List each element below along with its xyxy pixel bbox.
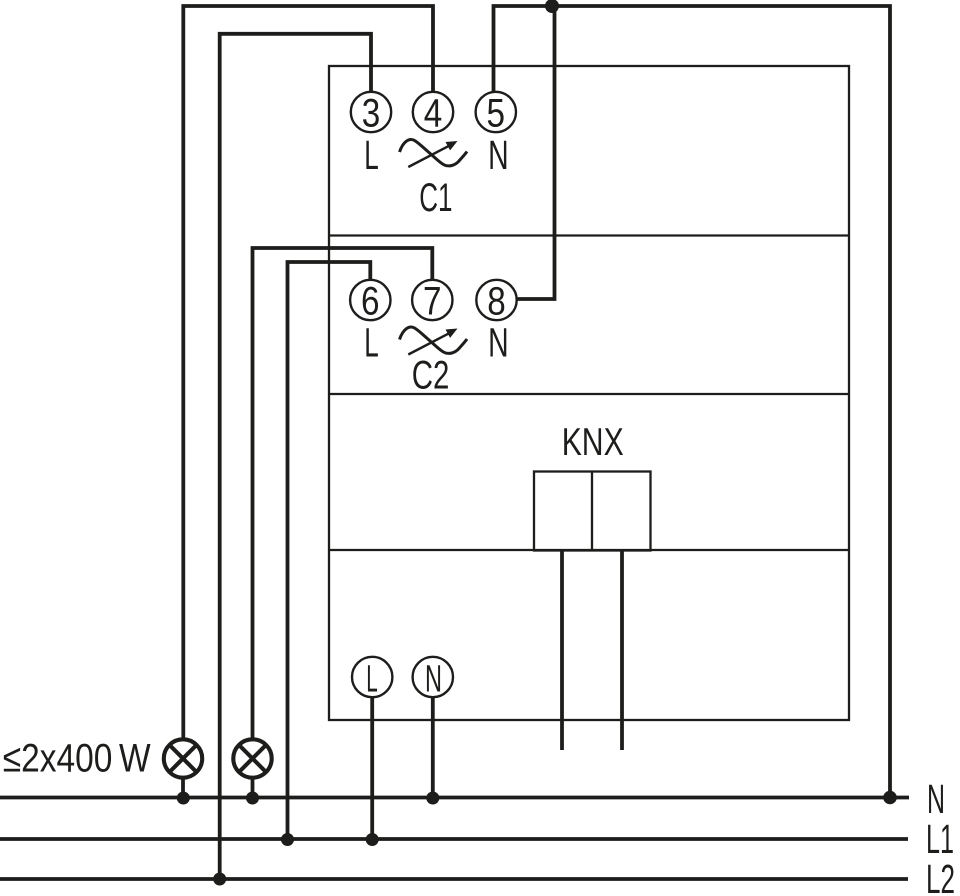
svg-text:8: 8 xyxy=(487,280,506,324)
svg-text:7: 7 xyxy=(423,280,442,324)
svg-text:4: 4 xyxy=(424,92,443,136)
KNX bus wire + xyxy=(560,551,564,750)
section divider between C1 and C2 blocks xyxy=(329,234,849,236)
terminal 5 xyxy=(476,92,516,136)
svg-text:KNX: KNX xyxy=(562,421,624,464)
dimmer symbol for channel C2 xyxy=(400,327,468,355)
terminal N xyxy=(413,657,453,701)
device outline U1 (dimmer actuator) xyxy=(329,66,849,720)
svg-text:3: 3 xyxy=(362,92,381,136)
svg-text:C2: C2 xyxy=(412,353,450,397)
wire: terminal L down to L1 bus xyxy=(370,697,374,839)
terminal L xyxy=(352,657,392,701)
svg-text:N: N xyxy=(488,132,509,178)
lamp E2 xyxy=(233,739,271,797)
dimmer symbol for channel C1 xyxy=(400,139,468,167)
terminal 6 xyxy=(350,280,390,324)
L1 bus line xyxy=(0,837,908,841)
wire: terminal 7 output to lamp E2 xyxy=(253,248,433,740)
KNX bus wire - xyxy=(620,551,624,750)
L2 bus line xyxy=(0,877,908,881)
wire: terminal 5 over the top to N bus xyxy=(494,6,891,798)
svg-text:N: N xyxy=(488,320,509,366)
junction dot lamp E1 on N bus xyxy=(177,792,190,805)
junction dot terminal L wire on L1 bus xyxy=(366,833,379,846)
N bus line xyxy=(0,796,909,800)
terminal 8 xyxy=(476,280,516,324)
svg-text:L: L xyxy=(364,132,379,178)
terminal 7 xyxy=(412,280,452,324)
junction dot terminal N wire on N bus xyxy=(426,792,439,805)
wire: L1 riser to terminal 6 xyxy=(288,262,371,839)
terminal 3 xyxy=(351,92,391,136)
junction dot C1 riser on L2 bus xyxy=(213,873,226,886)
terminal 4 xyxy=(413,92,453,136)
KNX bus connector block xyxy=(534,472,651,551)
svg-text:6: 6 xyxy=(361,280,380,324)
svg-text:L: L xyxy=(364,320,379,366)
wire: branch from top N wire down to terminal 8 xyxy=(516,6,555,299)
junction dot C2 riser on L1 bus xyxy=(281,833,294,846)
wire: terminal 4 output over the top to lamp E1 xyxy=(183,6,433,740)
junction dot N return on N bus xyxy=(883,791,897,805)
wire: terminal N down to N bus xyxy=(431,697,435,798)
section divider below KNX block xyxy=(329,549,849,551)
junction dot at top N wire branch xyxy=(545,0,559,13)
svg-text:L2: L2 xyxy=(926,856,955,896)
svg-text:L: L xyxy=(366,658,378,700)
junction dot lamp E2 on N bus xyxy=(246,792,259,805)
svg-text:≤2x400 W: ≤2x400 W xyxy=(3,737,152,781)
svg-text:5: 5 xyxy=(487,92,506,136)
wire: L2 riser to terminal 3 xyxy=(220,34,371,879)
svg-text:C1: C1 xyxy=(419,176,452,220)
section divider below C2 block xyxy=(329,393,849,395)
svg-text:N: N xyxy=(425,658,442,700)
lamp E1 xyxy=(164,739,202,797)
